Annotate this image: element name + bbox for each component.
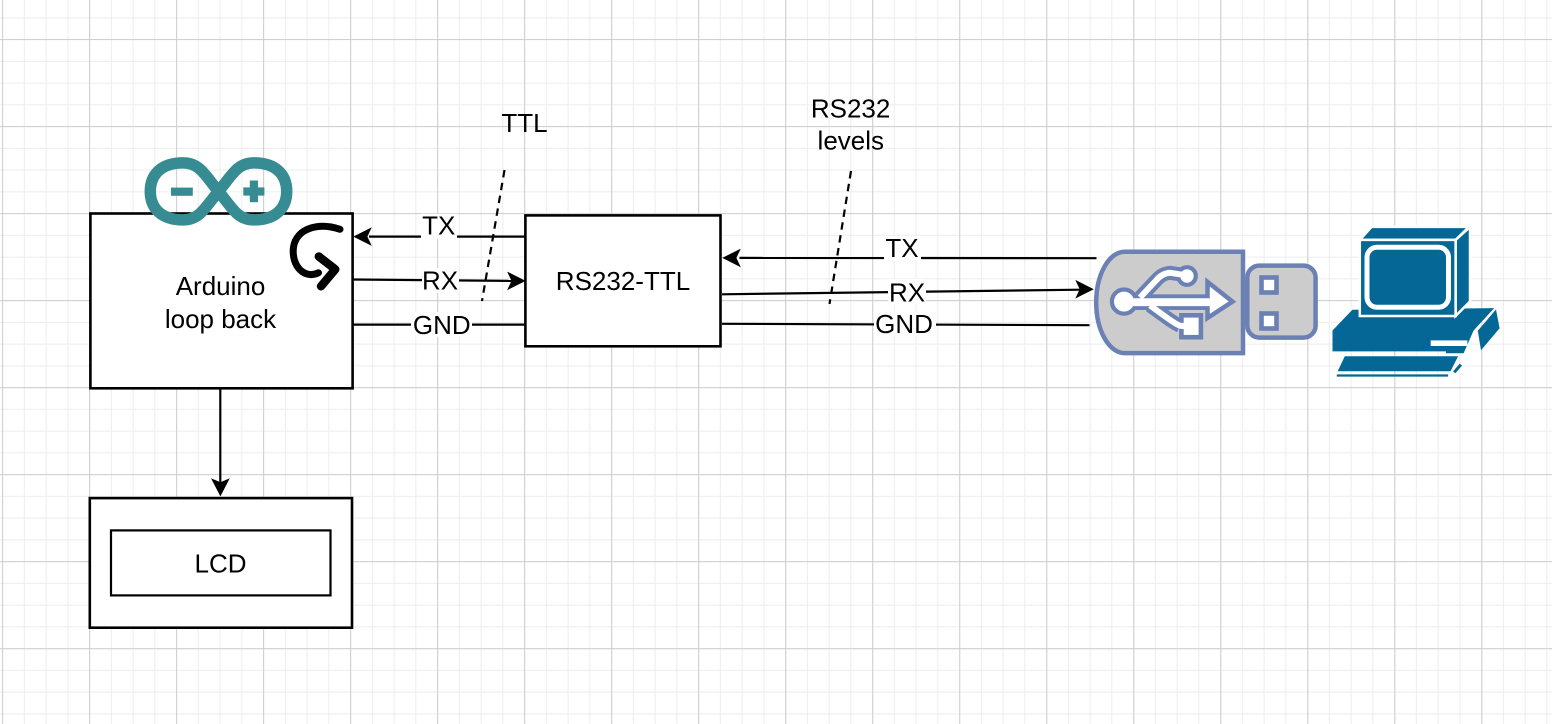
USB trident lower branch outline [1150,306,1180,326]
label TX (RS232 side) [884,233,921,263]
label RS232 levels [811,94,891,156]
Arduino infinity logo [150,163,286,220]
USB arrow head [1208,282,1233,318]
wire RX (TTL side) [353,272,526,291]
computer slot [1431,340,1468,346]
wire GND (RS232 side) [722,324,1090,325]
USB connector contact bottom [1262,314,1277,329]
computer base right face [1478,310,1500,351]
computer base top and front faces [1333,308,1495,353]
USB trident white shaft [1118,298,1221,306]
USB trident upper branch outline [1140,273,1179,298]
block RS232-TTL [525,215,720,346]
svg-text:RS232-TTL: RS232-TTL [556,266,690,296]
monitor screen frame [1367,247,1449,307]
USB trident white upper branch [1140,273,1183,298]
USB small circle [1178,267,1196,285]
svg-text:loop back: loop back [165,304,277,334]
svg-text:levels: levels [818,126,884,156]
svg-text:RX: RX [889,278,925,308]
computer icon [1333,227,1500,376]
boundary RS232 dashed [830,171,852,304]
svg-text:TTL: TTL [501,108,547,138]
svg-text:GND: GND [875,309,933,339]
wire GND (TTL side) [353,324,525,326]
svg-text:RX: RX [422,266,458,296]
USB big node circle [1112,290,1136,314]
svg-text:GND: GND [413,310,471,340]
svg-text:TX: TX [885,233,918,263]
keyboard [1338,356,1458,371]
label RX (RS232 side) [888,278,926,308]
wire RX (RS232 side) [722,280,1094,299]
USB small square node [1181,315,1201,337]
boundary TTL dashed [482,170,505,301]
wire TX (RS232 side) [722,249,1096,268]
label GND (RS232 side) [874,309,936,339]
monitor front face [1360,240,1456,316]
LCD inner box [111,530,331,595]
USB connector block [1247,266,1315,338]
svg-text:TX: TX [422,211,455,241]
wire TX (TTL side) [353,227,524,246]
USB adapter icon [1096,252,1315,353]
label TX (TTL side) [421,211,457,241]
label RX (TTL side) [422,266,459,296]
block Arduino loop back [90,214,352,389]
USB body [1096,252,1243,353]
keyboard right edge [1454,365,1461,373]
monitor right face [1456,227,1470,316]
svg-text:RS232: RS232 [811,94,891,124]
keyboard underline [1337,374,1448,376]
monitor top face [1360,227,1469,240]
svg-text:Arduino: Arduino [176,271,266,301]
block LCD outer [90,498,352,628]
USB connector contact top [1262,278,1277,293]
loop-back arrow icon [293,226,340,286]
svg-text:LCD: LCD [194,549,246,579]
USB trident shaft outline [1124,294,1208,310]
USB trident white lower branch [1150,306,1189,327]
label GND (TTL side) [411,310,472,340]
wire Arduino to LCD [211,389,230,497]
